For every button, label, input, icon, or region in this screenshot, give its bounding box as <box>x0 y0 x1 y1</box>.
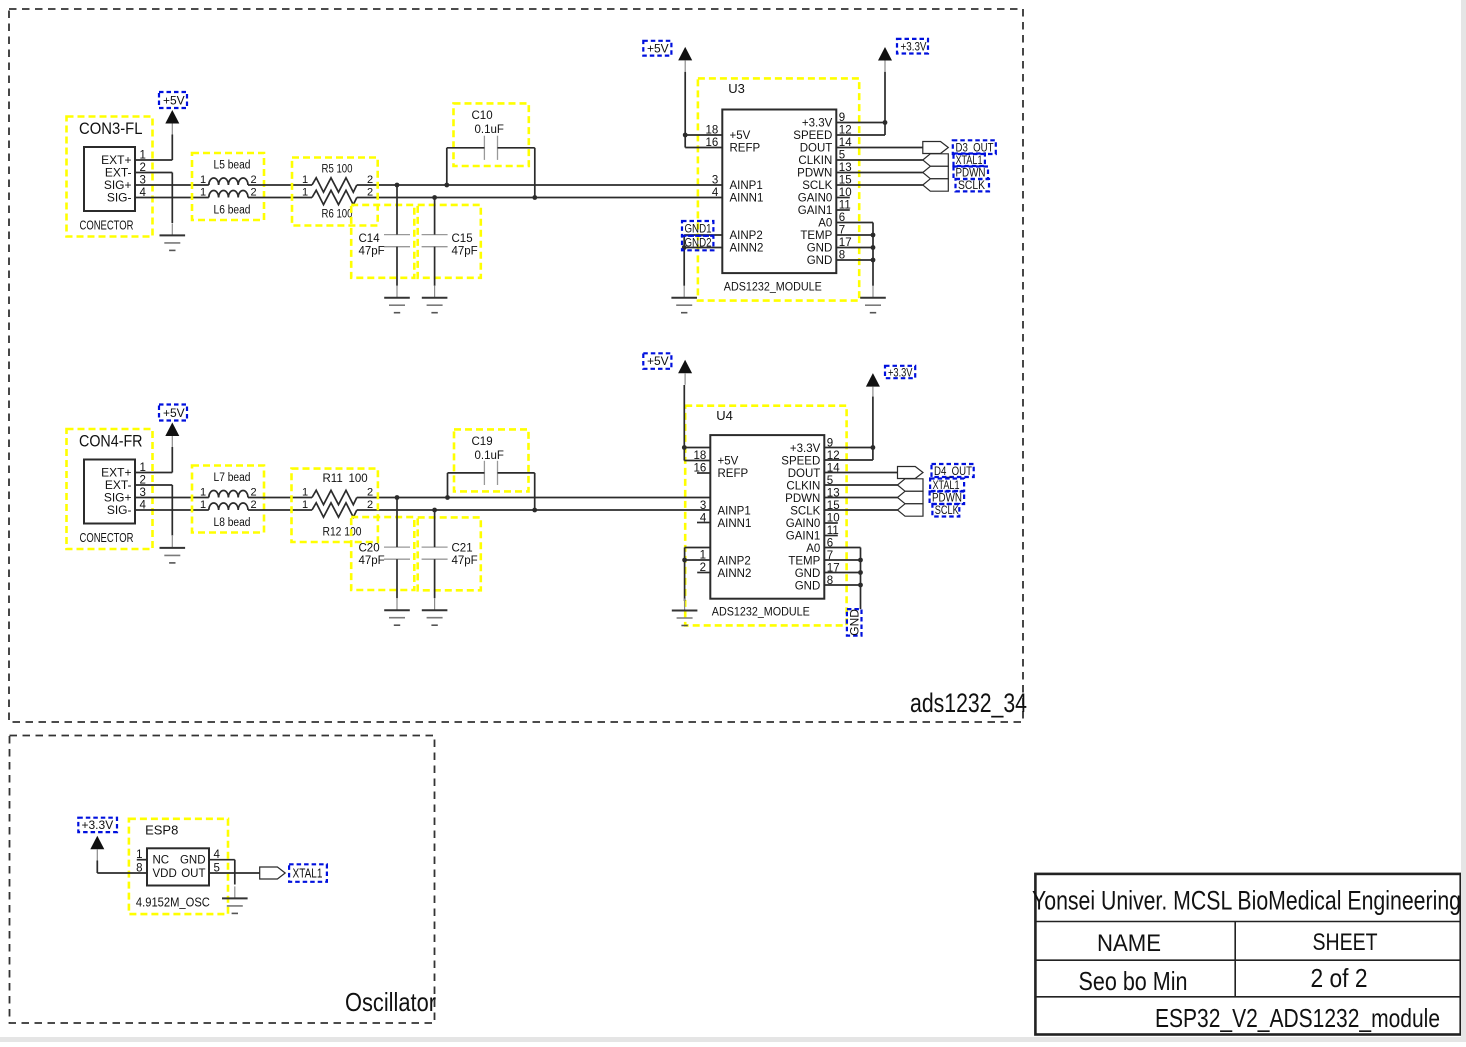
flag PDWN (U3) <box>923 166 949 178</box>
ground at CON4-FR <box>160 536 186 563</box>
sheet frame ads1232_34 <box>9 9 1023 722</box>
ferrite bead L7 <box>192 466 264 533</box>
svg-text:U3: U3 <box>728 81 745 96</box>
svg-text:+3.3V: +3.3V <box>802 118 833 130</box>
svg-text:VDD: VDD <box>153 868 177 880</box>
wire C19 right leg to SIG- <box>498 472 535 474</box>
svg-text:Oscillator: Oscillator <box>345 987 436 1017</box>
svg-text:AINN2: AINN2 <box>718 568 752 580</box>
svg-text:GND: GND <box>847 609 861 636</box>
+3.3V power symbol at U3 <box>878 39 928 72</box>
pin stub AINN1 U4 <box>697 522 710 524</box>
svg-text:GND: GND <box>807 255 833 267</box>
svg-text:GAIN1: GAIN1 <box>798 205 833 217</box>
svg-text:CONECTOR: CONECTOR <box>80 531 134 545</box>
wire C15 to SIG- <box>434 198 436 235</box>
svg-text:1: 1 <box>302 499 308 511</box>
svg-text:AINN1: AINN1 <box>718 518 752 530</box>
wire +5V to U3 pin18 and REFP <box>684 72 686 148</box>
svg-text:OUT: OUT <box>181 868 205 880</box>
wire OUT pin5 ESP8 <box>209 872 260 874</box>
svg-text:47pF: 47pF <box>452 555 478 567</box>
svg-text:Yonsei Univer. MCSL BioMedical: Yonsei Univer. MCSL BioMedical Engineeri… <box>1032 886 1461 916</box>
svg-text:+5V: +5V <box>647 41 669 55</box>
wire bead to resistor (SIG+) <box>248 184 312 186</box>
net label GND2 <box>682 236 713 251</box>
svg-text:AINP1: AINP1 <box>718 506 751 518</box>
svg-text:ESP32_V2_ADS1232_module: ESP32_V2_ADS1232_module <box>1155 1003 1440 1033</box>
wire A0-TEMP-GND net U4 <box>824 547 860 549</box>
net label GND1 <box>682 221 713 236</box>
svg-text:C19: C19 <box>472 436 493 448</box>
svg-text:GND: GND <box>795 581 821 593</box>
svg-text:GND: GND <box>795 568 821 580</box>
svg-text:R6 100: R6 100 <box>322 209 353 221</box>
capacitor C19 0.1uF <box>454 429 529 491</box>
svg-text:XTAL1: XTAL1 <box>293 867 323 881</box>
svg-text:ADS1232_MODULE: ADS1232_MODULE <box>712 604 810 618</box>
pin stub GAIN1 U4 <box>824 535 838 537</box>
flag XTAL1 (U4) <box>898 479 924 491</box>
svg-text:CLKIN: CLKIN <box>786 481 820 493</box>
wire resistor to capacitors (SIG-) <box>357 509 435 511</box>
svg-text:2: 2 <box>367 187 373 199</box>
wire C10 left leg to SIG+ <box>447 147 485 149</box>
svg-text:TEMP: TEMP <box>800 230 832 242</box>
svg-text:A0: A0 <box>818 218 832 230</box>
svg-text:+3.3V: +3.3V <box>901 40 927 54</box>
svg-text:2 of 2: 2 of 2 <box>1311 963 1368 993</box>
svg-text:ADS1232_MODULE: ADS1232_MODULE <box>724 280 822 294</box>
wire DOUT U3 <box>836 147 923 149</box>
wire SIG- into U4 (AINP1) <box>535 509 711 511</box>
ferrite bead L6 <box>200 187 257 217</box>
wire bead to resistor (SIG-) <box>248 197 312 199</box>
svg-text:AINP2: AINP2 <box>718 556 751 568</box>
svg-text:GAIN0: GAIN0 <box>786 518 821 530</box>
oscillator ESP8 4.9152M_OSC <box>129 819 228 914</box>
svg-text:GND1: GND1 <box>685 224 712 236</box>
wire resistor to capacitors (SIG+) <box>357 184 447 186</box>
pin stub REFP U4 <box>697 472 710 474</box>
svg-text:SCLK: SCLK <box>802 180 832 192</box>
wire C21 to SIG- <box>434 510 436 547</box>
wire SIG+ to AINP1 U3 <box>535 184 723 186</box>
svg-text:+3.3V: +3.3V <box>790 443 821 455</box>
wire bead to resistor (SIG-) <box>248 509 312 511</box>
capacitor C20 47pF <box>351 517 414 590</box>
+5V power symbol at CON3-FL <box>159 92 187 135</box>
svg-text:1: 1 <box>700 550 706 562</box>
pin stub AINN2 U4 <box>697 572 710 574</box>
wire +3.3V to U4 pin9 and SPEED <box>872 397 874 460</box>
svg-text:ESP8: ESP8 <box>145 823 178 838</box>
svg-text:R5 100: R5 100 <box>322 164 353 176</box>
svg-text:SPEED: SPEED <box>793 130 832 142</box>
net label SCLK (U4) <box>932 503 959 517</box>
ground at CON3-FL <box>160 223 186 250</box>
svg-text:C14: C14 <box>359 233 381 245</box>
wire C15 to ground <box>434 247 436 286</box>
resistor R6 100 <box>302 187 373 221</box>
svg-text:1: 1 <box>200 499 206 511</box>
svg-text:C21: C21 <box>452 543 473 555</box>
wire A0-TEMP-GND net U3 <box>836 222 873 224</box>
svg-text:100: 100 <box>349 473 368 485</box>
svg-text:AINN2: AINN2 <box>730 243 764 255</box>
capacitor C15 47pF <box>418 205 481 278</box>
svg-text:47pF: 47pF <box>359 555 385 567</box>
wire C14 to ground <box>396 247 398 286</box>
wire C14 to SIG+ <box>396 185 398 235</box>
wire EXT+ pin1 to +5V <box>135 472 172 474</box>
wire resistor to capacitors (SIG+) <box>357 497 448 499</box>
svg-text:2: 2 <box>367 499 373 511</box>
wire CLKIN U3 <box>836 159 923 161</box>
svg-text:1: 1 <box>302 487 308 499</box>
svg-text:SCLK: SCLK <box>790 506 820 518</box>
svg-text:GAIN0: GAIN0 <box>798 193 833 205</box>
flag SCLK (U4) <box>898 504 924 516</box>
wire C20 to SIG+ <box>396 498 398 548</box>
net label XTAL1 (U3) <box>954 153 985 167</box>
svg-text:L8 bead: L8 bead <box>214 517 251 529</box>
svg-text:L5 bead: L5 bead <box>214 159 251 171</box>
svg-text:GND: GND <box>807 243 833 255</box>
connector CON3-FL <box>67 117 153 237</box>
+5V power symbol at CON4-FR <box>159 405 187 448</box>
flag D3_OUT <box>923 142 949 154</box>
wire +3.3V to VDD ESP8 <box>96 861 98 874</box>
ground at U3 left <box>671 286 697 313</box>
resistor R11 100 <box>292 469 378 542</box>
capacitor C21 47pF <box>418 517 481 590</box>
wire DOUT U4 <box>824 472 897 474</box>
wire PDWN U4 <box>824 497 897 499</box>
svg-text:SIG-: SIG- <box>107 191 132 205</box>
wire AINP2/AINN2 to ground U3 <box>684 234 722 236</box>
wire EXT- pin2 to ground <box>135 484 172 486</box>
sheet frame Oscillator <box>10 736 435 1024</box>
svg-text:D4_OUT: D4_OUT <box>934 464 973 478</box>
svg-text:C10: C10 <box>472 110 493 122</box>
flag XTAL1 (oscillator) <box>260 867 286 879</box>
svg-text:REFP: REFP <box>730 143 761 155</box>
net label D4_OUT <box>932 464 974 478</box>
svg-text:+5V: +5V <box>718 456 739 468</box>
svg-text:2: 2 <box>367 487 373 499</box>
wire SIG+ connector to bead <box>135 497 209 499</box>
ferrite bead L8 <box>200 499 257 529</box>
svg-text:R11: R11 <box>323 473 343 485</box>
+3.3V power symbol at U4 <box>866 366 915 399</box>
svg-text:+5V: +5V <box>163 94 185 108</box>
net label D3_OUT <box>953 140 996 154</box>
pin stub GAIN0 U3 <box>836 197 850 199</box>
wire SIG- connector to bead <box>135 509 209 511</box>
svg-text:A0: A0 <box>806 543 820 555</box>
ground at C15 <box>422 286 448 313</box>
svg-text:L6 bead: L6 bead <box>214 205 251 217</box>
svg-text:1: 1 <box>200 174 206 186</box>
net label XTAL1 (oscillator) <box>289 864 327 882</box>
capacitor C10 0.1uF <box>454 103 529 166</box>
wire resistor to capacitors (SIG-) <box>357 197 435 199</box>
svg-text:+3.3V: +3.3V <box>82 818 114 832</box>
svg-text:GND2: GND2 <box>685 238 712 250</box>
svg-text:CON3-FL: CON3-FL <box>79 119 143 138</box>
flag D4_OUT <box>898 467 924 479</box>
wire SIG+ connector to bead <box>135 184 209 186</box>
wire C10 right leg to SIG- <box>498 147 535 149</box>
wire GND pin4 ESP8 to ground <box>209 859 235 861</box>
svg-text:SCLK: SCLK <box>958 178 985 192</box>
net label XTAL1 (U4) <box>930 478 964 492</box>
svg-text:R12 100: R12 100 <box>323 527 362 539</box>
svg-text:2: 2 <box>367 174 373 186</box>
svg-text:0.1uF: 0.1uF <box>475 124 504 136</box>
svg-text:1: 1 <box>302 174 308 186</box>
svg-text:ads1232_34: ads1232_34 <box>910 688 1027 718</box>
net label PDWN (U4) <box>930 490 965 504</box>
ground at U4 left <box>672 599 698 626</box>
ground at ESP8 <box>222 886 248 913</box>
svg-text:GND: GND <box>180 855 206 867</box>
wire SIG- to AINN1 U3 <box>535 197 723 199</box>
svg-text:1: 1 <box>200 187 206 199</box>
pin stub NC ESP8 <box>137 859 147 861</box>
svg-text:SPEED: SPEED <box>781 456 820 468</box>
svg-text:AINP2: AINP2 <box>730 230 763 242</box>
wire AINP2 net U4 <box>685 547 711 549</box>
+5V power symbol at U3 <box>643 41 692 72</box>
svg-text:SCLK: SCLK <box>935 503 959 517</box>
svg-text:L7 bead: L7 bead <box>214 472 251 484</box>
flag XTAL1 (U3) <box>923 154 949 166</box>
svg-text:+3.3V: +3.3V <box>888 366 913 380</box>
svg-text:Seo bo Min: Seo bo Min <box>1079 966 1188 996</box>
svg-text:0.1uF: 0.1uF <box>475 450 504 462</box>
svg-text:47pF: 47pF <box>452 246 478 258</box>
svg-text:1: 1 <box>200 487 206 499</box>
svg-text:TEMP: TEMP <box>788 556 820 568</box>
pin stub GAIN0 U4 <box>824 522 838 524</box>
svg-text:U4: U4 <box>716 408 733 423</box>
net label SCLK (U3) <box>956 178 990 192</box>
ground at C20 <box>384 598 410 625</box>
wire SCLK U4 <box>824 509 897 511</box>
ground at C21 <box>422 598 448 625</box>
svg-text:CLKIN: CLKIN <box>798 155 832 167</box>
svg-text:DOUT: DOUT <box>800 143 833 155</box>
svg-text:AINN1: AINN1 <box>730 193 764 205</box>
IC U3 ADS1232_MODULE <box>698 78 859 300</box>
wire PDWN U3 <box>836 172 923 174</box>
net label PDWN (U3) <box>954 165 989 179</box>
svg-text:47pF: 47pF <box>359 246 385 258</box>
svg-text:1: 1 <box>302 187 308 199</box>
svg-text:SIG-: SIG- <box>107 503 132 517</box>
svg-text:C20: C20 <box>359 543 380 555</box>
svg-text:PDWN: PDWN <box>797 168 832 180</box>
wire SIG+ into U4 <box>535 497 711 499</box>
svg-text:NC: NC <box>153 855 170 867</box>
flag PDWN (U4) <box>898 491 924 503</box>
connector CON4-FR <box>67 429 153 549</box>
wire bead to resistor (SIG+) <box>248 497 312 499</box>
svg-text:+5V: +5V <box>730 130 751 142</box>
ground at U3 right <box>860 286 886 313</box>
wire CLKIN U4 <box>824 484 897 486</box>
+3.3V power symbol at ESP8 <box>78 818 117 861</box>
svg-text:PDWN: PDWN <box>785 493 820 505</box>
capacitor C14 47pF <box>351 205 414 278</box>
IC U4 ADS1232_MODULE <box>685 406 846 626</box>
svg-text:REFP: REFP <box>718 468 749 480</box>
svg-text:SHEET: SHEET <box>1313 929 1378 956</box>
svg-text:DOUT: DOUT <box>788 468 821 480</box>
wire +5V to U4 <box>683 385 685 461</box>
resistor R5 100 <box>292 158 378 226</box>
wire SIG- connector to bead <box>135 197 209 199</box>
svg-text:NAME: NAME <box>1097 930 1161 957</box>
ferrite bead L5 <box>192 153 264 220</box>
wire C19 left leg to SIG+ <box>448 472 485 474</box>
svg-text:GAIN1: GAIN1 <box>786 531 821 543</box>
wire +3.3V to U3 pin9 and SPEED <box>884 72 886 135</box>
svg-text:CONECTOR: CONECTOR <box>80 219 134 233</box>
wire EXT- pin2 to ground <box>135 172 172 174</box>
svg-text:4.9152M_OSC: 4.9152M_OSC <box>136 895 210 910</box>
svg-text:C15: C15 <box>452 233 473 245</box>
wire EXT+ pin1 to +5V <box>135 159 172 161</box>
title block <box>1032 874 1461 1035</box>
wire C20 to ground <box>396 559 398 598</box>
resistor R12 100 <box>302 499 373 539</box>
ground at C14 <box>384 286 410 313</box>
svg-text:+5V: +5V <box>647 354 669 368</box>
svg-text:AINP1: AINP1 <box>730 180 763 192</box>
wire SCLK U3 <box>836 184 923 186</box>
wire C21 to ground <box>434 559 436 598</box>
svg-text:CON4-FR: CON4-FR <box>79 432 143 451</box>
flag SCLK (U3) <box>923 179 949 191</box>
net label GND (rotated) U4 <box>847 609 862 636</box>
svg-text:+5V: +5V <box>163 406 185 420</box>
+5V power symbol at U4 <box>643 353 692 385</box>
svg-text:2: 2 <box>700 562 706 574</box>
pin stub GAIN1 U3 <box>836 209 850 211</box>
